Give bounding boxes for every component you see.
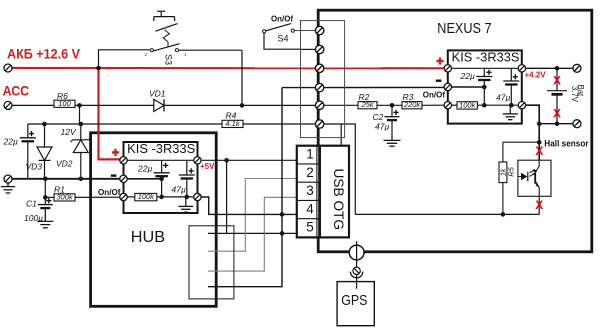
svg-text:S3: S3	[164, 54, 174, 65]
svg-text:5: 5	[306, 220, 314, 235]
svg-text:3.7V: 3.7V	[570, 86, 579, 103]
svg-text:22µ: 22µ	[3, 137, 18, 147]
svg-text:Hall sensor: Hall sensor	[544, 138, 589, 148]
svg-text:R6: R6	[57, 91, 68, 101]
svg-text:S4: S4	[278, 34, 289, 44]
svg-text:100µ: 100µ	[24, 213, 43, 223]
svg-text:22µ: 22µ	[137, 163, 152, 173]
svg-text:1: 1	[306, 147, 314, 162]
svg-text:C2: C2	[373, 112, 384, 122]
svg-text:R4: R4	[226, 110, 237, 120]
svg-text:On/Of: On/Of	[423, 90, 445, 99]
svg-text:R3: R3	[403, 92, 414, 102]
svg-text:1: 1	[184, 52, 187, 58]
svg-text:X: X	[553, 107, 561, 121]
svg-text:R5: R5	[507, 166, 516, 176]
svg-text:USB OTG: USB OTG	[331, 169, 346, 231]
svg-text:47µ: 47µ	[172, 184, 186, 194]
svg-text:On/Of: On/Of	[98, 188, 121, 197]
svg-text:4: 4	[306, 201, 314, 216]
svg-text:R1: R1	[54, 184, 65, 194]
svg-text:KIS -3R33S: KIS -3R33S	[127, 142, 195, 156]
svg-text:KIS -3R33S: KIS -3R33S	[452, 51, 520, 65]
svg-text:12V: 12V	[61, 127, 77, 137]
svg-text:47µ: 47µ	[496, 92, 510, 102]
svg-text:VD3: VD3	[26, 162, 43, 172]
svg-text:100k: 100k	[459, 101, 477, 110]
svg-text:X: X	[535, 144, 543, 158]
svg-text:R2: R2	[359, 92, 370, 102]
svg-text:100k: 100k	[138, 192, 156, 201]
svg-text:+4.2V: +4.2V	[525, 71, 547, 80]
svg-text:47µ: 47µ	[375, 122, 389, 132]
svg-text:VD1: VD1	[149, 89, 166, 99]
svg-text:GPS: GPS	[341, 292, 367, 309]
svg-text:2: 2	[306, 165, 314, 180]
svg-text:3: 3	[306, 183, 314, 198]
svg-text:АСС: АСС	[3, 84, 30, 99]
svg-text:HUB: HUB	[131, 229, 165, 246]
svg-text:АКБ +12.6 V: АКБ +12.6 V	[7, 47, 80, 62]
svg-text:2: 2	[145, 52, 148, 58]
svg-text:On/Of: On/Of	[271, 15, 293, 24]
svg-text:X: X	[553, 74, 561, 88]
svg-text:NEXUS 7: NEXUS 7	[437, 21, 491, 37]
svg-text:X: X	[535, 198, 543, 212]
svg-text:+5V: +5V	[200, 162, 215, 171]
svg-text:VD2: VD2	[56, 159, 73, 169]
svg-text:22µ: 22µ	[460, 71, 475, 81]
svg-text:C1: C1	[26, 199, 37, 209]
